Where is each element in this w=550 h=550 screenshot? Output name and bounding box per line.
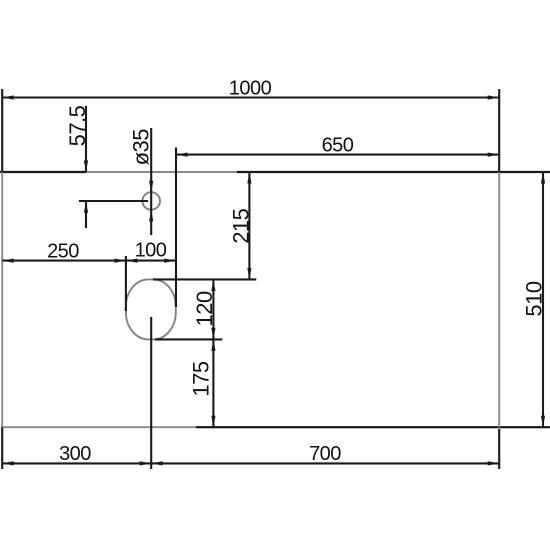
sink centerline [150, 317, 152, 469]
sink cutout [126, 279, 176, 339]
dimension 1000 [2, 78, 499, 173]
svg-text:ø35: ø35 [129, 129, 154, 166]
dimension 215 [153, 172, 256, 279]
svg-text:100: 100 [135, 240, 167, 262]
svg-text:700: 700 [309, 443, 341, 465]
dimension 250 [2, 241, 126, 312]
dimension 120 [155, 279, 222, 339]
svg-text:120: 120 [192, 291, 217, 326]
svg-text:510: 510 [522, 281, 547, 316]
svg-text:650: 650 [322, 135, 354, 157]
dimension 700 [151, 443, 499, 466]
left edge extension bottom [1, 427, 3, 469]
dimension 175 [188, 339, 215, 427]
faucet hole Ø35 [142, 192, 160, 210]
dimension 510 [522, 172, 547, 427]
right edge extension bottom [498, 429, 500, 469]
svg-text:250: 250 [47, 241, 79, 263]
dimension 650 [176, 135, 499, 308]
countertop right edge [498, 172, 500, 427]
svg-text:1000: 1000 [229, 78, 272, 100]
countertop bottom edge [2, 426, 550, 428]
dimension 100 [126, 240, 176, 263]
svg-text:300: 300 [59, 443, 91, 465]
dimension 300 [2, 443, 151, 466]
svg-text:175: 175 [188, 361, 213, 396]
countertop top edge [0, 171, 550, 173]
countertop left edge [1, 172, 3, 427]
dimension ø35 [129, 128, 154, 235]
svg-text:215: 215 [228, 208, 253, 243]
svg-text:57.5: 57.5 [65, 105, 90, 146]
dimension 57.5 [65, 105, 148, 228]
